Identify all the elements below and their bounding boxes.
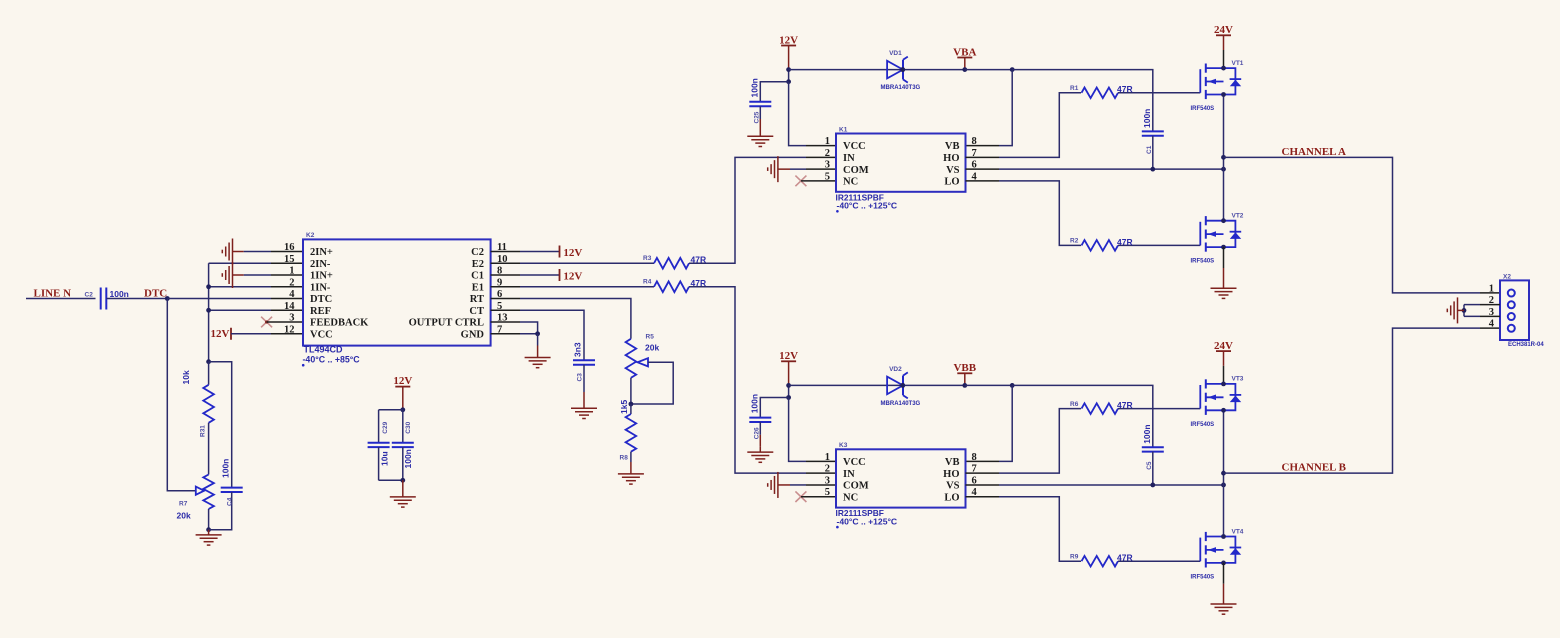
- power 24V: [1216, 350, 1231, 352]
- svg-text:CHANNEL A: CHANNEL A: [1282, 146, 1347, 158]
- svg-text:VB: VB: [945, 457, 960, 468]
- svg-text:47R: 47R: [1117, 237, 1133, 247]
- wire CT to C3: [491, 309, 520, 311]
- transistor VT4 IRF540S: [1206, 536, 1223, 538]
- svg-text:14: 14: [284, 301, 295, 312]
- junction GND/OC: [535, 331, 540, 336]
- junction DTC: [165, 296, 170, 301]
- junction R5/R8: [629, 402, 634, 407]
- svg-text:5: 5: [825, 487, 830, 498]
- svg-text:RT: RT: [470, 294, 484, 305]
- transistor VT2 IRF540S: [1206, 220, 1223, 222]
- wire 12V rail to VBA: [789, 384, 965, 386]
- svg-text:NC: NC: [843, 177, 858, 188]
- svg-text:E1: E1: [472, 282, 484, 293]
- no-connect X on K2 pin3 FEEDBACK: [261, 317, 272, 328]
- ground under VT2: [1211, 287, 1237, 289]
- svg-text:C4: C4: [227, 497, 234, 506]
- svg-text:VD2: VD2: [889, 366, 902, 373]
- power 24V: [1216, 34, 1231, 36]
- ground under C25: [759, 131, 761, 136]
- ground at K3 COM: [777, 472, 779, 498]
- wire VS line: [966, 484, 1000, 486]
- svg-text:R6: R6: [1070, 401, 1079, 408]
- wire VBA to VB tap: [965, 69, 1012, 71]
- no-connect X on K3 NC: [795, 491, 806, 502]
- svg-text:IRF540S: IRF540S: [1191, 106, 1215, 112]
- svg-text:4: 4: [1489, 319, 1495, 330]
- svg-text:3: 3: [289, 313, 294, 324]
- junction bus pin2: [206, 284, 211, 289]
- diode VD2 MBRA140T3G: [887, 377, 903, 395]
- svg-text:VCC: VCC: [843, 457, 866, 468]
- svg-text:1IN+: 1IN+: [310, 271, 333, 282]
- svg-text:R3: R3: [643, 255, 652, 262]
- wire VBA to VB tap: [965, 384, 1012, 386]
- junction bus pin14: [206, 308, 211, 313]
- svg-text:VBB: VBB: [953, 362, 976, 374]
- svg-text:MBRA140T3G: MBRA140T3G: [881, 85, 921, 91]
- svg-text:47R: 47R: [1117, 553, 1133, 563]
- svg-text:GND: GND: [461, 329, 485, 340]
- resistor R2 47R: [966, 180, 1000, 182]
- svg-text:10k: 10k: [181, 370, 191, 384]
- svg-text:C25: C25: [753, 111, 760, 123]
- svg-text:-40°C .. +125°C: -40°C .. +125°C: [837, 201, 898, 211]
- svg-text:12V: 12V: [563, 247, 582, 259]
- svg-text:R8: R8: [620, 455, 629, 462]
- svg-text:COM: COM: [843, 481, 869, 492]
- svg-text:CHANNEL B: CHANNEL B: [1282, 462, 1347, 474]
- junction C29/C30 top: [400, 407, 405, 412]
- wire VS line: [966, 168, 1000, 170]
- svg-text:C2: C2: [85, 292, 94, 299]
- svg-text:LO: LO: [944, 492, 959, 503]
- svg-text:TL494CD: TL494CD: [304, 345, 344, 355]
- wire X2 ground bracket: [1463, 305, 1465, 317]
- svg-text:C1: C1: [471, 271, 484, 282]
- svg-text:-40°C .. +125°C: -40°C .. +125°C: [837, 517, 898, 527]
- resistor R8 1k5: [630, 404, 632, 414]
- svg-text:C26: C26: [753, 427, 760, 439]
- svg-text:NC: NC: [843, 492, 858, 503]
- svg-text:VT2: VT2: [1232, 213, 1244, 220]
- svg-text:12V: 12V: [211, 328, 230, 340]
- wire X2 pin3 stub: [1480, 315, 1500, 317]
- svg-text:X2: X2: [1503, 273, 1511, 280]
- ground at K1 COM: [777, 156, 779, 182]
- svg-text:LINE N: LINE N: [34, 288, 72, 300]
- svg-text:2: 2: [825, 464, 830, 475]
- capacitor C2 100n: [100, 288, 102, 310]
- wire feedback bus (pins 15,2,14 to R31): [208, 263, 210, 361]
- svg-text:47R: 47R: [1117, 84, 1133, 94]
- svg-text:100n: 100n: [1142, 109, 1152, 128]
- ground at K2 pin1 (1IN+): [232, 262, 234, 288]
- svg-text:HO: HO: [943, 153, 959, 164]
- svg-text:VCC: VCC: [843, 141, 866, 152]
- ground under K2 GND: [537, 334, 539, 346]
- svg-text:3n3: 3n3: [573, 342, 583, 357]
- svg-text:12V: 12V: [779, 350, 798, 362]
- wire source to ground: [1223, 563, 1225, 584]
- svg-text:C2: C2: [471, 247, 484, 258]
- wire LINE N to C2: [26, 298, 96, 300]
- wire source to ground: [1223, 247, 1225, 268]
- svg-text:FEEDBACK: FEEDBACK: [310, 318, 369, 329]
- svg-text:VBA: VBA: [953, 46, 976, 58]
- svg-text:5: 5: [825, 171, 830, 182]
- junction channel tap: [1221, 471, 1226, 476]
- power 12V at K1: [781, 45, 796, 47]
- power 12V at K3: [781, 360, 796, 362]
- resistor R31 10k: [208, 362, 210, 385]
- svg-text:2: 2: [825, 148, 830, 159]
- wire RT to R5: [491, 298, 520, 300]
- svg-text:VS: VS: [946, 165, 960, 176]
- capacitor C26 100n: [760, 398, 788, 418]
- capacitor C5 100n: [1142, 446, 1164, 448]
- svg-text:VS: VS: [946, 481, 960, 492]
- resistor R3 47R (E2 to K1 IN): [491, 262, 520, 264]
- svg-text:IRF540S: IRF540S: [1191, 259, 1215, 265]
- wire rail to C1 bootstrap: [1012, 385, 1153, 447]
- svg-text:8: 8: [972, 136, 977, 147]
- svg-text:OUTPUT CTRL: OUTPUT CTRL: [409, 318, 484, 329]
- power 12V at K2 pin8 C1: [491, 274, 520, 276]
- diode VD1 MBRA140T3G: [887, 61, 903, 79]
- svg-text:100n: 100n: [221, 459, 231, 478]
- svg-text:12V: 12V: [393, 375, 412, 387]
- svg-text:DTC: DTC: [310, 294, 332, 305]
- svg-text:IN: IN: [843, 153, 855, 164]
- svg-text:3: 3: [825, 475, 830, 486]
- svg-text:1: 1: [1489, 283, 1494, 294]
- svg-text:100n: 100n: [110, 289, 129, 299]
- svg-text:DTC: DTC: [144, 288, 167, 300]
- capacitor C1 100n: [1142, 130, 1164, 132]
- svg-text:C29: C29: [382, 421, 389, 433]
- svg-text:2IN-: 2IN-: [310, 259, 331, 270]
- svg-text:R5: R5: [646, 334, 655, 341]
- wire VB tap down to K1 VB: [999, 70, 1012, 146]
- wire DTC to K2 pin4: [167, 298, 271, 300]
- svg-text:E2: E2: [472, 259, 484, 270]
- ground under R8: [630, 469, 632, 474]
- trimmer R5 20k: [626, 339, 637, 378]
- wire GND pin7: [491, 333, 520, 335]
- svg-text:1k5: 1k5: [619, 400, 629, 414]
- svg-text:R4: R4: [643, 279, 652, 286]
- svg-text:C1: C1: [1146, 145, 1153, 154]
- ground under C30: [402, 480, 404, 497]
- junction R7 bottom: [206, 527, 211, 532]
- svg-text:100n: 100n: [403, 449, 413, 468]
- resistor R1 47R: [966, 156, 1000, 158]
- svg-text:C3: C3: [577, 373, 584, 382]
- wire R4 to K3 IN: [689, 287, 806, 473]
- svg-text:K3: K3: [839, 442, 848, 449]
- wire CHANNEL A: [1224, 157, 1481, 293]
- capacitor C4 100n: [209, 362, 232, 488]
- svg-text:15: 15: [284, 254, 295, 265]
- gate driver K1 IR2111SPBF: [836, 134, 966, 192]
- svg-text:8: 8: [972, 452, 977, 463]
- svg-text:VT3: VT3: [1232, 376, 1244, 383]
- svg-text:R9: R9: [1070, 553, 1079, 560]
- svg-text:10u: 10u: [379, 451, 389, 466]
- svg-text:LO: LO: [944, 177, 959, 188]
- svg-text:K2: K2: [306, 232, 315, 239]
- power VBB: [957, 372, 972, 374]
- svg-text:VT4: VT4: [1232, 528, 1244, 535]
- ground under VT4: [1211, 603, 1237, 605]
- junction channel tap: [1221, 155, 1226, 160]
- trimmer R7 20k: [203, 475, 214, 510]
- capacitor C29 10u: [379, 409, 403, 411]
- wire half-bridge node: [1223, 410, 1225, 536]
- wire OUTPUT CTRL to GND junction: [491, 321, 520, 323]
- svg-text:IRF540S: IRF540S: [1191, 422, 1215, 428]
- svg-text:12V: 12V: [779, 34, 798, 46]
- ground at K2 pin16 (2IN+): [232, 239, 234, 265]
- ground at X2: [1458, 309, 1465, 311]
- svg-text:VCC: VCC: [310, 329, 333, 340]
- svg-text:2: 2: [289, 277, 294, 288]
- svg-text:R2: R2: [1070, 238, 1079, 245]
- svg-text:1: 1: [825, 452, 830, 463]
- svg-text:12: 12: [284, 324, 295, 335]
- svg-text:VT1: VT1: [1232, 60, 1244, 67]
- svg-text:2IN+: 2IN+: [310, 247, 333, 258]
- transistor VT3 IRF540S: [1206, 383, 1223, 385]
- wire R3 to K1 IN: [689, 157, 806, 263]
- wire VB tap down to K3 VB: [999, 385, 1012, 461]
- svg-text:ECH381R-04: ECH381R-04: [1508, 342, 1544, 348]
- gate driver K3 IR2111SPBF: [836, 449, 966, 507]
- svg-text:3: 3: [825, 160, 830, 171]
- svg-text:R7: R7: [179, 501, 188, 508]
- svg-text:16: 16: [284, 242, 295, 253]
- svg-text:1IN-: 1IN-: [310, 282, 331, 293]
- wire half-bridge node: [1223, 95, 1225, 221]
- svg-text:IRF540S: IRF540S: [1191, 575, 1215, 581]
- svg-text:4: 4: [289, 289, 295, 300]
- svg-text:24V: 24V: [1214, 340, 1233, 352]
- wire 12V rail to VBA: [789, 69, 965, 71]
- no-connect X on K1 NC: [795, 176, 806, 187]
- wire 12V to K1 VCC: [789, 82, 806, 146]
- wire DTC branch down to R7 wiper: [167, 299, 196, 491]
- ground under C26: [759, 447, 761, 452]
- junction C29/C30 bottom: [400, 478, 405, 483]
- svg-text:CT: CT: [469, 306, 484, 317]
- resistor R9 47R: [966, 496, 1000, 498]
- svg-text:20k: 20k: [177, 511, 191, 521]
- svg-text:R31: R31: [200, 425, 207, 437]
- svg-text:12V: 12V: [563, 271, 582, 283]
- power VBA: [957, 57, 972, 59]
- svg-text:REF: REF: [310, 306, 331, 317]
- capacitor C3 3n3: [573, 359, 595, 361]
- svg-text:VB: VB: [945, 141, 960, 152]
- ground under C3: [583, 403, 585, 408]
- wire CHANNEL B: [1224, 328, 1481, 473]
- svg-text:K1: K1: [839, 126, 848, 133]
- capacitor C30 100n: [402, 410, 404, 443]
- wire C2 to DTC node: [106, 298, 167, 300]
- power 12V at K2 pin12 VCC: [230, 328, 232, 340]
- svg-text:C30: C30: [405, 421, 412, 433]
- svg-text:100n: 100n: [1142, 424, 1152, 443]
- svg-text:R1: R1: [1070, 85, 1079, 92]
- power 12V at C29/C30: [395, 386, 410, 388]
- svg-text:20k: 20k: [645, 343, 659, 353]
- resistor R6 47R: [966, 472, 1000, 474]
- svg-text:100n: 100n: [749, 394, 759, 413]
- capacitor C25 100n: [760, 82, 788, 102]
- wire 12V rail: [788, 385, 790, 397]
- junction R31 top: [206, 359, 211, 364]
- svg-text:IN: IN: [843, 469, 855, 480]
- svg-text:24V: 24V: [1214, 24, 1233, 36]
- power 12V at K2 pin11 C2: [491, 251, 520, 253]
- svg-text:-40°C .. +85°C: -40°C .. +85°C: [303, 354, 361, 364]
- svg-text:MBRA140T3G: MBRA140T3G: [881, 401, 921, 407]
- op-amp U-K2 TL494CD PWM controller: [303, 239, 491, 345]
- svg-text:1: 1: [289, 266, 294, 277]
- wire X2 pin2 stub: [1480, 304, 1500, 306]
- resistor R4 47R (E1 to K3 IN): [491, 286, 520, 288]
- connector X2 ECH381R-04: [1500, 280, 1529, 340]
- svg-text:1: 1: [825, 136, 830, 147]
- transistor VT1 IRF540S: [1206, 67, 1223, 69]
- svg-text:47R: 47R: [1117, 400, 1133, 410]
- svg-text:COM: COM: [843, 165, 869, 176]
- svg-text:C5: C5: [1146, 461, 1153, 470]
- ground under R7: [208, 530, 210, 535]
- wire rail to C1 bootstrap: [1012, 70, 1153, 132]
- svg-text:100n: 100n: [749, 78, 759, 97]
- wire 12V rail: [788, 70, 790, 82]
- wire 12V to K3 VCC: [789, 398, 806, 462]
- svg-text:HO: HO: [943, 469, 959, 480]
- svg-text:VD1: VD1: [889, 50, 902, 57]
